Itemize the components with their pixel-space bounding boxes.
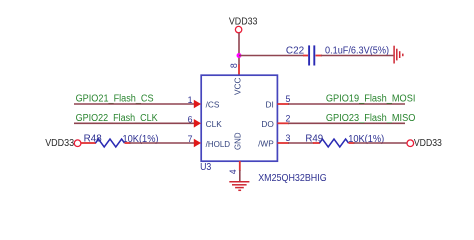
pin stub R49 right — [349, 142, 355, 144]
ground symbol (bottom) — [229, 182, 249, 191]
svg-text:DO: DO — [261, 119, 274, 129]
pin stub U3 pin 8 — [238, 65, 240, 76]
svg-text:/CS: /CS — [206, 100, 220, 110]
wire VDD33 to R48 — [81, 142, 96, 144]
power port VDD33 (left) circle — [74, 140, 81, 147]
IC U3 body — [201, 75, 277, 161]
svg-text:0.1uF/6.3V(5%): 0.1uF/6.3V(5%) — [325, 45, 389, 56]
wire GPIO19_Flash_MOSI — [288, 103, 405, 105]
svg-text:8: 8 — [229, 63, 239, 68]
capacitor C22 plates — [309, 45, 314, 65]
svg-text:U3: U3 — [200, 162, 212, 173]
svg-text:CLK: CLK — [206, 119, 223, 129]
svg-text:R49: R49 — [305, 134, 323, 145]
svg-text:VDD33: VDD33 — [414, 138, 442, 149]
pin arrow U3 pin 1 — [194, 100, 201, 109]
wire GPIO23_Flash_MISO — [288, 122, 405, 124]
pin stub R48 right — [125, 142, 131, 144]
svg-text:GPIO23_Flash_MISO: GPIO23_Flash_MISO — [326, 113, 416, 124]
pin arrow U3 pin 7 — [194, 139, 201, 148]
power port VDD33 (right) circle — [407, 140, 414, 147]
svg-text:5: 5 — [286, 94, 291, 104]
wire U3 pin 3 to R49 — [288, 142, 314, 144]
svg-text:DI: DI — [265, 100, 273, 110]
pin stub U3 pin 2 — [277, 122, 289, 124]
svg-text:GPIO22_Flash_CLK: GPIO22_Flash_CLK — [76, 113, 158, 124]
svg-text:R48: R48 — [84, 134, 103, 145]
svg-text:GPIO19_Flash_MOSI: GPIO19_Flash_MOSI — [326, 94, 416, 105]
ground symbol (right, bars point right) — [394, 46, 403, 64]
pin stub C22 right — [316, 55, 323, 57]
wire R48 to U3 pin 7 — [130, 142, 198, 144]
pin stub U3 pin 3 — [277, 142, 289, 144]
resistor R48 zigzag — [96, 139, 125, 147]
svg-text:VDD33: VDD33 — [45, 138, 74, 149]
pin stub U3 pin 5 — [277, 103, 289, 105]
svg-text:4: 4 — [228, 169, 238, 174]
wire GPIO21_Flash_CS — [74, 103, 197, 105]
wire R49 to VDD33 right — [354, 142, 408, 144]
svg-text:/HOLD: /HOLD — [206, 139, 231, 149]
junction node VDD33 net — [237, 53, 242, 58]
wire VDD33 junction to C22 — [239, 55, 304, 57]
svg-text:GPIO21_Flash_CS: GPIO21_Flash_CS — [76, 94, 154, 105]
power port VDD33 (top) circle — [235, 26, 241, 32]
svg-text:C22: C22 — [286, 45, 305, 56]
svg-text:VCC: VCC — [233, 78, 243, 96]
wire C22 to ground — [321, 55, 393, 57]
svg-text:7: 7 — [188, 134, 193, 144]
pin stub U3 pin 4 — [239, 161, 241, 171]
pin stub R49 left — [313, 142, 320, 144]
svg-text:3: 3 — [286, 133, 291, 143]
svg-text:GND: GND — [233, 132, 243, 150]
svg-text:VDD33: VDD33 — [229, 17, 258, 28]
resistor R49 zigzag — [320, 139, 349, 147]
svg-text:6: 6 — [188, 114, 193, 124]
pin stub C22 left — [303, 55, 308, 57]
wire GPIO22_Flash_CLK — [74, 122, 197, 124]
svg-text:2: 2 — [286, 113, 291, 123]
wire VDD33 vertical down to junction — [238, 33, 240, 56]
svg-text:XM25QH32BHIG: XM25QH32BHIG — [258, 173, 327, 184]
wire GND vertical — [239, 170, 241, 182]
svg-text:1: 1 — [188, 95, 193, 105]
svg-text:/WP: /WP — [258, 138, 274, 148]
pin arrow U3 pin 6 — [194, 119, 201, 128]
wire junction to U3 pin 8 — [238, 56, 240, 66]
